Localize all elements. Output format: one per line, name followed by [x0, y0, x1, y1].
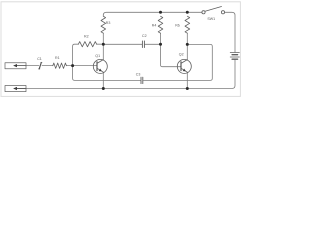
wire Q1 collector lead	[102, 44, 104, 59]
wire Q1 emitter lead to bottom rail	[102, 72, 104, 88]
node Q2 collector / R5	[186, 43, 189, 46]
resistor R5 (Q2 collector load, vertical)	[185, 16, 190, 33]
wire top rail right of switch to battery	[225, 12, 235, 52]
wire R2 to Q1 collector node	[97, 43, 104, 45]
wire R1 to base node of Q1	[66, 65, 97, 67]
microphone box (top-left transducer)	[5, 63, 26, 69]
svg-text:R4: R4	[152, 23, 157, 27]
node R4 bottom / C2	[159, 43, 162, 46]
resistor R4 (vertical, middle)	[158, 16, 163, 33]
transistor Q1	[93, 59, 107, 73]
capacitor C1	[39, 63, 41, 69]
wire R4 bottom down to Q2 base	[161, 44, 182, 66]
node Q1 base	[71, 64, 74, 67]
node Q1 emitter on bottom rail	[102, 87, 105, 90]
svg-text:R1: R1	[55, 56, 60, 60]
resistor R2 (feedback, horizontal)	[78, 42, 96, 47]
resistor R1 (series input)	[53, 63, 67, 68]
border frame	[1, 2, 240, 97]
wire R3 lower lead	[102, 33, 104, 44]
wire base node down to C3 line	[73, 66, 141, 81]
svg-text:SW1: SW1	[207, 17, 215, 21]
node Q2 emitter on bottom rail	[186, 87, 189, 90]
wire Q2 collector lead	[186, 44, 188, 59]
svg-text:R2: R2	[84, 35, 89, 39]
wire top rail from R3 to switch	[103, 12, 202, 16]
wire Q2 emitter lead to bottom rail	[186, 72, 188, 88]
wire R5 lower lead	[186, 33, 188, 44]
node R4 top on rail	[159, 11, 162, 14]
svg-text:C1: C1	[37, 57, 42, 61]
transistor Q2	[177, 59, 191, 73]
capacitor C2	[142, 41, 144, 48]
svg-text:C2: C2	[142, 34, 147, 38]
earphone box (bottom-left transducer)	[5, 86, 26, 92]
wire battery negative to bottom rail corner	[26, 59, 235, 88]
resistor R3 (Q1 collector load, vertical)	[101, 16, 106, 33]
wire R4 lower lead	[160, 33, 162, 44]
svg-text:Q2: Q2	[179, 53, 184, 57]
svg-text:R3: R3	[106, 21, 111, 25]
battery BT1	[230, 53, 239, 60]
node Q1 collector	[102, 43, 105, 46]
wire Q1 collector node through C2 to R4 bottom	[103, 43, 142, 45]
wire input from MIC box through C1	[26, 65, 39, 67]
node R5 top on rail	[186, 11, 189, 14]
wire base node up to R2	[73, 44, 79, 65]
switch SW1	[202, 7, 225, 14]
capacitor C3	[141, 77, 143, 83]
svg-text:R5: R5	[175, 24, 180, 28]
svg-text:Q1: Q1	[95, 54, 100, 58]
wire C1 to R1	[42, 65, 53, 67]
wire C3 right to Q2 collector node loop	[143, 44, 212, 80]
svg-text:C3: C3	[136, 72, 141, 76]
